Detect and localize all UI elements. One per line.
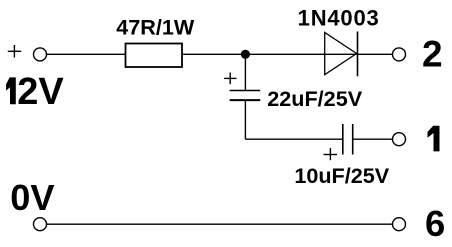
svg-text:2V: 2V [17, 71, 64, 113]
svg-text:22uF/25V: 22uF/25V [267, 86, 362, 111]
svg-text:2: 2 [422, 33, 443, 74]
svg-text:10uF/25V: 10uF/25V [294, 163, 389, 188]
svg-text:6: 6 [425, 203, 445, 244]
svg-text:1N4003: 1N4003 [298, 6, 380, 31]
svg-text:0V: 0V [10, 177, 54, 218]
svg-text:47R/1W: 47R/1W [116, 15, 195, 40]
